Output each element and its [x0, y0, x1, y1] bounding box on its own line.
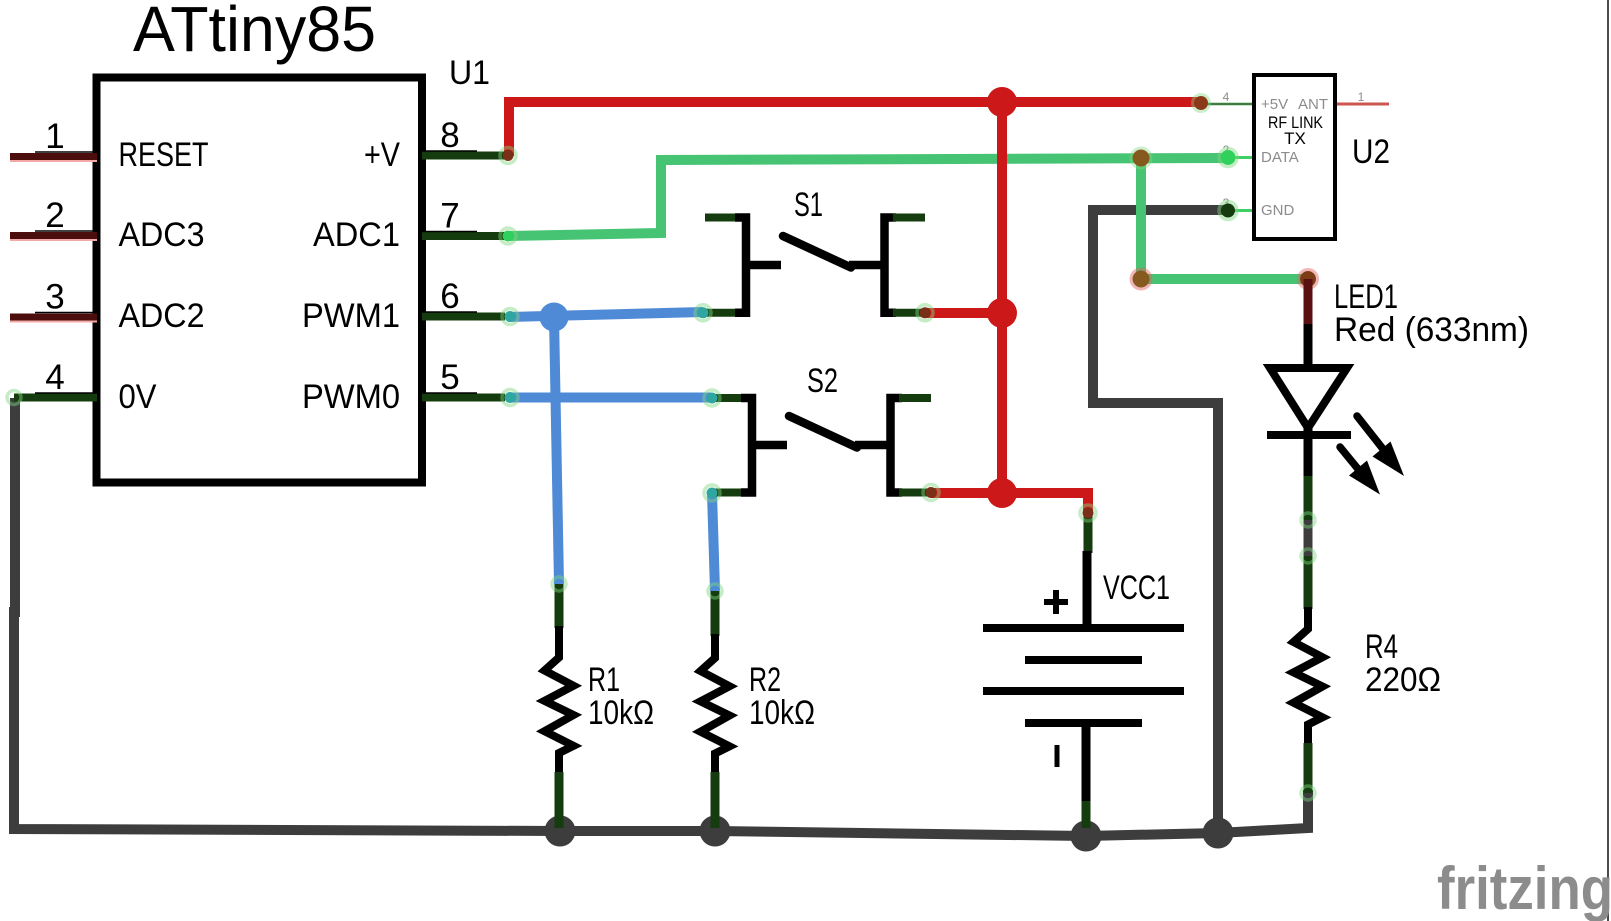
wire blue net: S2 bottom-left to R2: [712, 493, 715, 591]
resistor R1: [545, 577, 655, 828]
svg-text:PWM1: PWM1: [302, 297, 400, 335]
wire red net: pin8 up and across to U2 +5V: [509, 102, 1201, 156]
junction dot green DATA: [1131, 148, 1151, 168]
svg-text:0V: 0V: [119, 378, 157, 416]
wire LED to R4 grey link: [1304, 520, 1313, 558]
resistor R2: [701, 584, 816, 828]
switch S1: [695, 186, 933, 321]
svg-text:Red (633nm): Red (633nm): [1334, 311, 1529, 349]
junction dot grey GND drop: [1203, 818, 1234, 849]
svg-text:+5V: +5V: [1261, 96, 1288, 113]
junction dot red at top: [987, 87, 1017, 117]
svg-text:3: 3: [45, 278, 64, 317]
wire blue net: pin6 to S1 bottom-left: [508, 312, 703, 317]
wire red net: vertical drop to switches and battery: [1002, 102, 1088, 513]
battery VCC1: [983, 505, 1184, 828]
svg-text:RESET: RESET: [119, 136, 209, 174]
junction dot green LED branch: [1131, 269, 1151, 289]
wire ground from U2 GND to bus: [1093, 210, 1226, 833]
pin 1 RESET stub: [10, 117, 209, 174]
junction dot grey battery: [1071, 821, 1102, 852]
pin 4 0V stub: [7, 358, 157, 416]
svg-text:8: 8: [440, 116, 459, 155]
image right border: [1607, 0, 1609, 921]
svg-text:PWM0: PWM0: [302, 378, 400, 416]
svg-text:5: 5: [440, 358, 459, 397]
svg-text:S2: S2: [807, 362, 838, 400]
pin 8 +V stub: [364, 116, 516, 174]
svg-text:U2: U2: [1352, 133, 1390, 171]
svg-text:7: 7: [440, 197, 459, 236]
svg-text:2: 2: [45, 196, 64, 235]
IC U1 ATtiny85 body: [97, 78, 423, 483]
svg-text:220Ω: 220Ω: [1365, 661, 1441, 699]
wire blue net: junction down to R1: [554, 317, 559, 584]
svg-text:VCC1: VCC1: [1103, 569, 1170, 607]
svg-text:4: 4: [1223, 90, 1230, 104]
wire ground bus from pin4 down and across bottom: [14, 398, 1308, 836]
svg-text:10kΩ: 10kΩ: [749, 694, 815, 732]
svg-text:GND: GND: [1261, 202, 1295, 219]
wire red net: S2 bottom-right to vertical: [931, 488, 1002, 498]
junction dot grey R2: [700, 816, 731, 847]
svg-text:DATA: DATA: [1261, 149, 1299, 166]
resistor R4: [1294, 549, 1442, 800]
junction dot red at S2: [987, 478, 1017, 508]
svg-text:4: 4: [45, 358, 64, 397]
svg-text:ATtiny85: ATtiny85: [133, 0, 376, 65]
svg-text:TX: TX: [1284, 129, 1306, 148]
pin 6 PWM1 stub: [302, 277, 518, 335]
svg-text:ADC3: ADC3: [119, 216, 205, 254]
junction dot red at S1: [987, 298, 1017, 328]
svg-text:ADC1: ADC1: [313, 216, 400, 254]
junction dot grey R1: [545, 816, 576, 847]
svg-text:S1: S1: [794, 186, 823, 224]
svg-text:ADC2: ADC2: [119, 297, 205, 335]
wire blue net: pin5 to S2 top-left: [508, 393, 712, 403]
pin 3 ADC2 stub: [10, 278, 205, 336]
switch S2: [704, 362, 939, 501]
endpoint dot LED anode: [1299, 270, 1318, 289]
svg-text:U1: U1: [449, 54, 490, 92]
junction dot blue at pin6: [540, 303, 569, 332]
svg-text:+V: +V: [364, 136, 400, 174]
wire red net: S1 bottom-right to vertical: [925, 308, 1002, 318]
module U2 RF LINK TX: [1193, 75, 1391, 239]
svg-text:1: 1: [1358, 90, 1365, 104]
pin 2 ADC3 stub: [10, 196, 205, 254]
svg-text:fritzing: fritzing: [1437, 855, 1611, 921]
wire green net branch to LED anode: [1141, 158, 1308, 279]
pin 5 PWM0 stub: [302, 358, 518, 416]
svg-text:6: 6: [440, 277, 459, 316]
svg-text:10kΩ: 10kΩ: [588, 694, 654, 732]
pin 7 ADC1 stub: [313, 197, 516, 255]
wire green net: pin7 to U2 DATA: [508, 158, 1228, 236]
LED1: [1267, 278, 1529, 527]
svg-text:1: 1: [45, 117, 64, 156]
svg-text:ANT: ANT: [1298, 96, 1328, 113]
